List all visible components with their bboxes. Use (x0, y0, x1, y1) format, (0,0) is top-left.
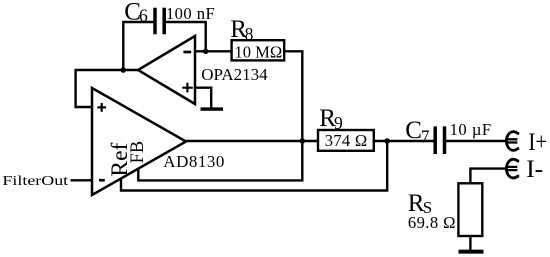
wire OPA2134 noninverting input to ground (195, 88, 211, 108)
wire FB pin feedback (138, 141, 302, 180)
resistor RS box (458, 183, 482, 236)
wire FilterOut lead (71, 179, 93, 181)
wire I- terminal to RS (470, 169, 506, 184)
connector terminal I- prongs (507, 167, 518, 170)
junction node at OPA inverting input (203, 49, 209, 55)
resistor R9 box (318, 130, 374, 151)
wire RS bottom to ground (469, 236, 471, 250)
svg-text:FB: FB (128, 141, 148, 164)
svg-text:C6: C6 (124, 0, 148, 26)
svg-text:69.8 Ω: 69.8 Ω (408, 213, 456, 232)
svg-text:FilterOut: FilterOut (2, 174, 68, 189)
op-amp U1 OPA2134 triangle (138, 36, 195, 104)
wire R9 to C7 (374, 140, 434, 142)
svg-text:I-: I- (526, 154, 543, 183)
amplifier U2 noninverting input plus sign (97, 103, 106, 112)
svg-text:R9: R9 (319, 105, 343, 133)
wire AD8130 output to R9 (186, 140, 318, 142)
resistor R8 box (232, 40, 285, 60)
capacitor C7 plates (435, 126, 444, 154)
svg-text:R8: R8 (230, 16, 253, 44)
amplifier U2 inverting input minus sign (99, 179, 105, 182)
connector terminal I- arc (506, 159, 519, 178)
wire C6 left plate to output node (123, 22, 156, 70)
connector terminal I+ arc (506, 132, 519, 151)
wire Ref pin feedback (121, 141, 387, 191)
wire OPA2134 output to AD8130 noninverting input (76, 70, 138, 107)
svg-text:100 nF: 100 nF (166, 4, 215, 23)
wire OPA2134 inverting input to R8 (195, 50, 232, 52)
svg-text:10 µF: 10 µF (450, 120, 492, 139)
op-amp U1 noninverting input plus sign (182, 83, 193, 93)
svg-text:OPA2134: OPA2134 (201, 65, 268, 84)
capacitor C6 plates (155, 8, 164, 35)
ground at RS (459, 250, 484, 254)
svg-text:C7: C7 (405, 117, 430, 147)
junction node at AD8130 output / R8 / FB (300, 138, 306, 144)
wire C6 right plate to inverting node (163, 22, 206, 51)
wire R8 right to output net (285, 51, 303, 141)
op-amp U1 inverting input minus sign (183, 51, 191, 54)
ground at OPA2134 noninverting input (201, 107, 224, 110)
svg-text:I+: I+ (528, 127, 547, 156)
amplifier U2 AD8130 triangle (92, 88, 186, 195)
junction node at OPA output / C6 tap (121, 67, 127, 73)
svg-text:AD8130: AD8130 (163, 152, 225, 171)
svg-text:374 Ω: 374 Ω (325, 131, 368, 150)
svg-text:10 MΩ: 10 MΩ (234, 42, 282, 61)
junction node at R9 right / C7 / Ref (384, 138, 390, 144)
wire C7 to I+ terminal (444, 140, 507, 142)
connector terminal I+ prongs (507, 139, 518, 142)
